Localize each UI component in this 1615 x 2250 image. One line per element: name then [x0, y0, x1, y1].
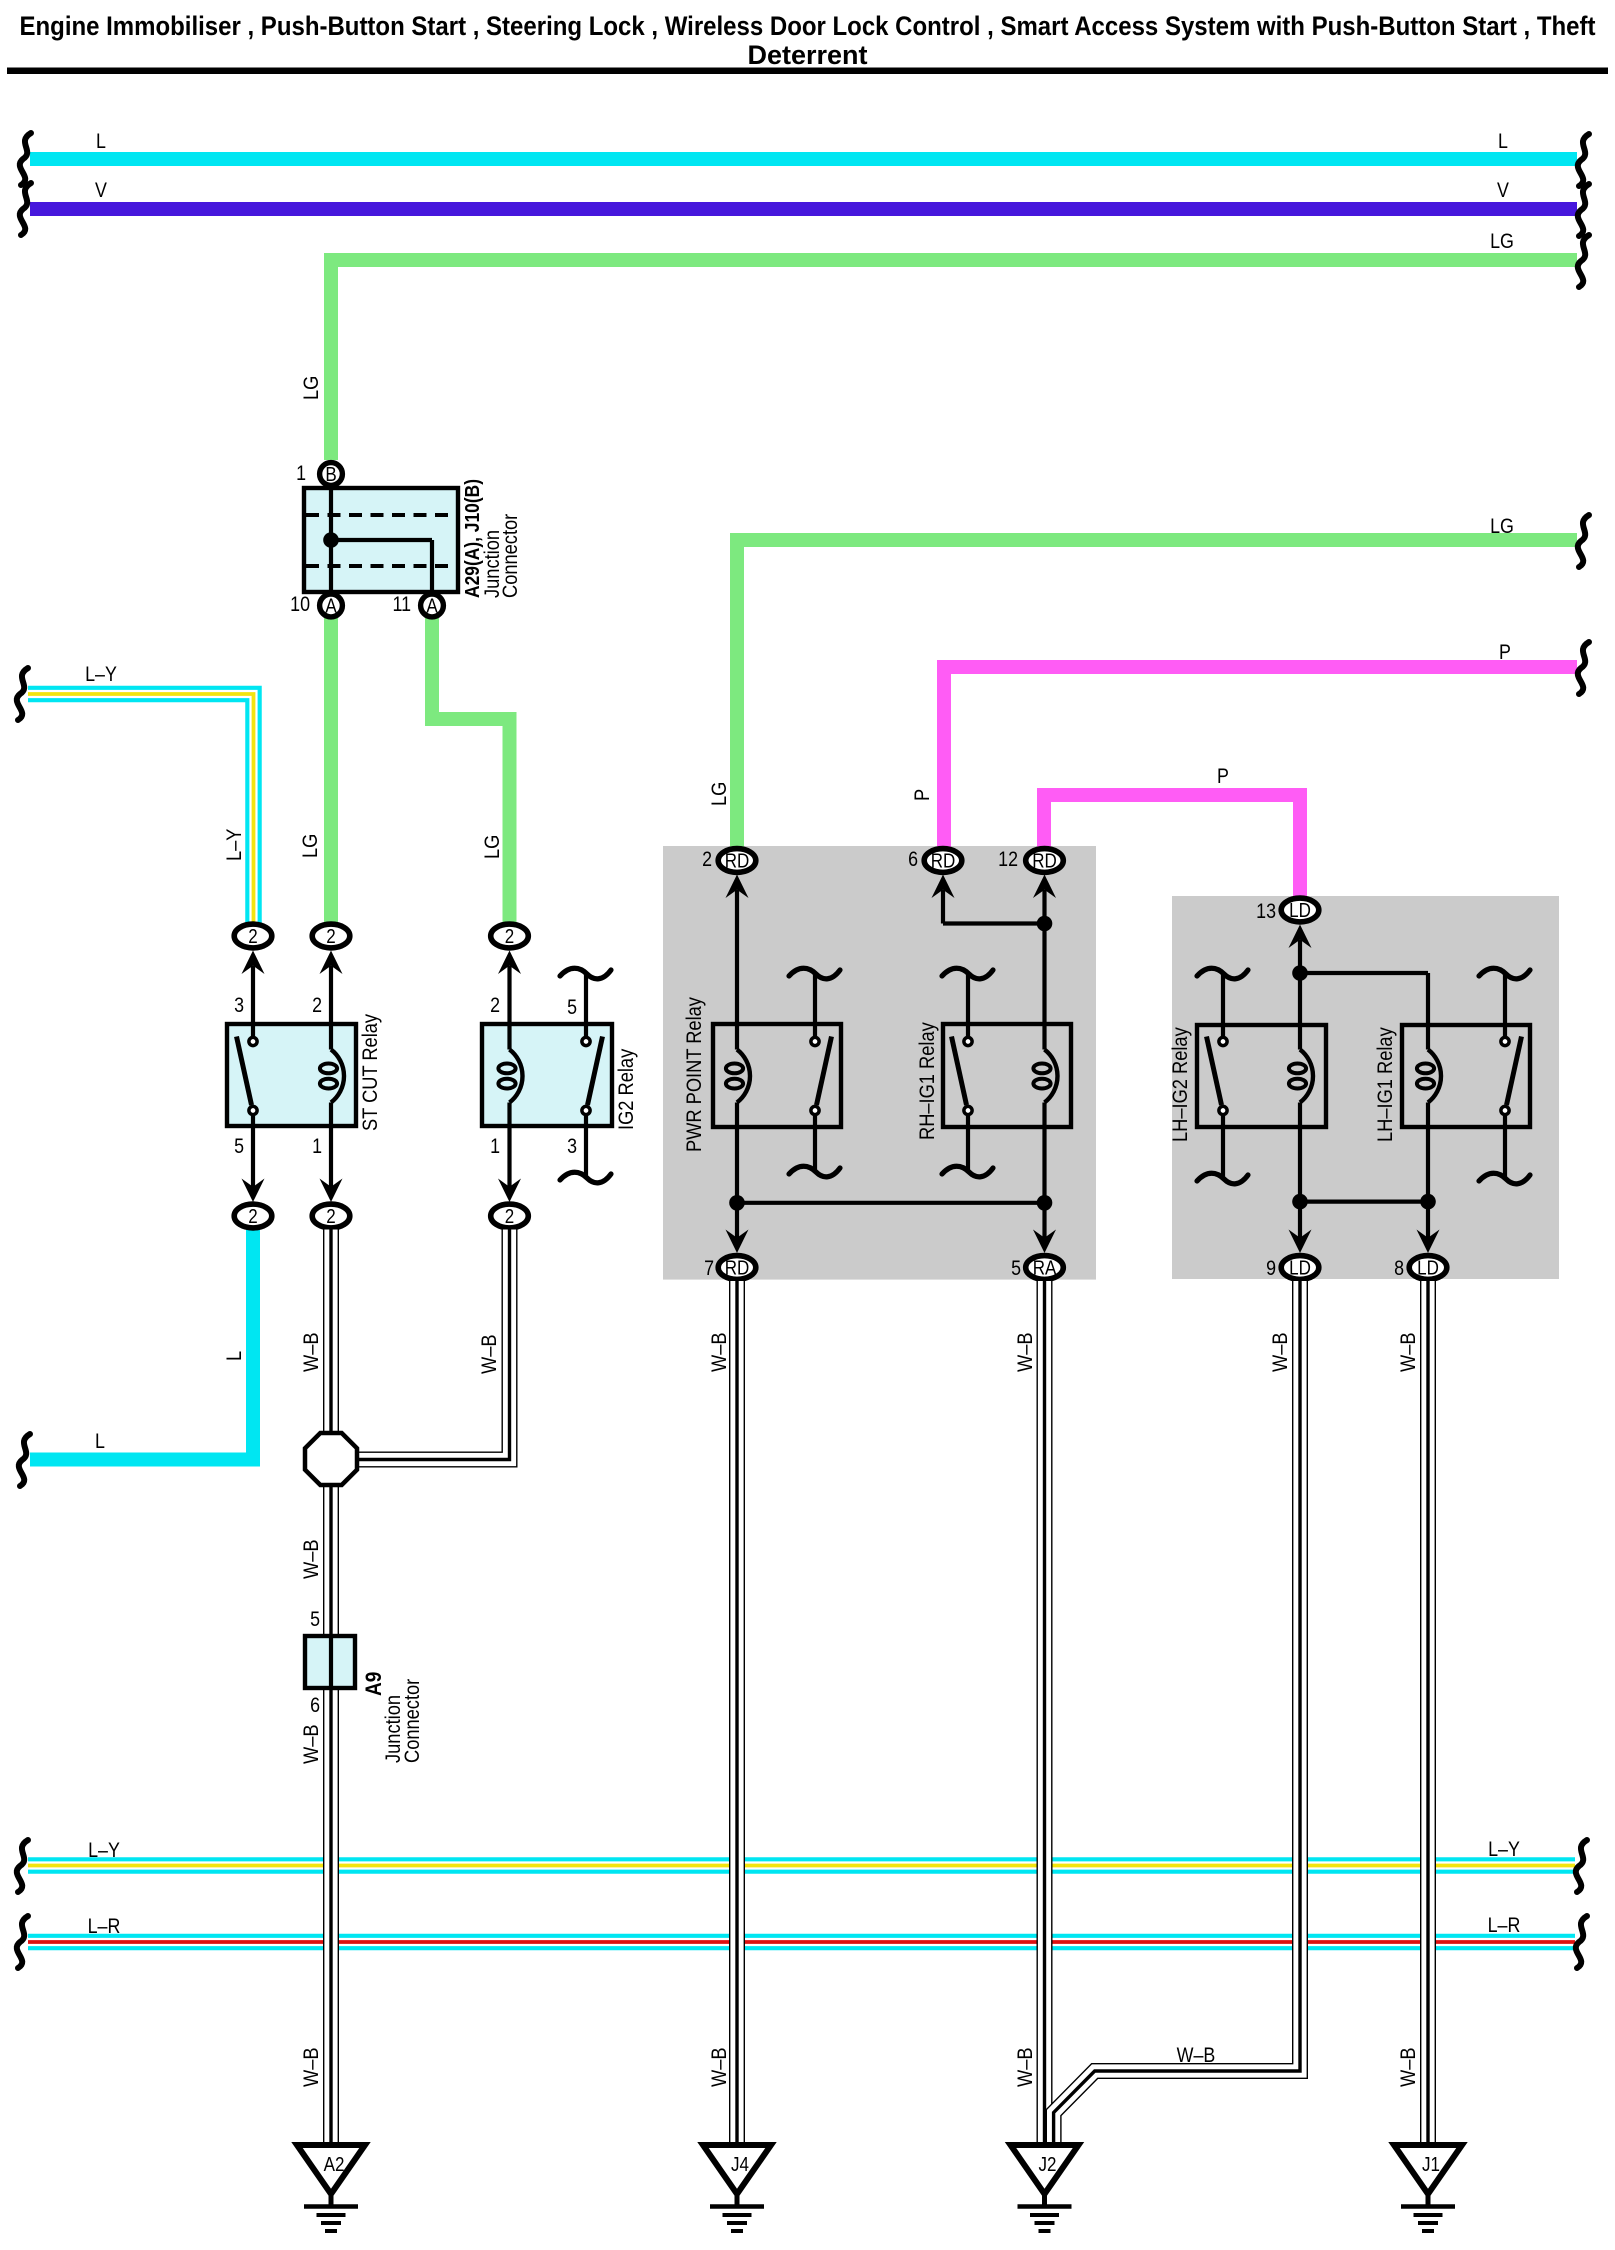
LH-IG2 relay coil	[1300, 1050, 1313, 1103]
splice octagon junction	[305, 1433, 357, 1485]
terminal oval 2 (L-Y into ST CUT)	[242, 951, 265, 975]
wire LG squiggle right end	[1578, 515, 1589, 567]
wire L-Y (blue-yellow) bottom horizontal	[28, 1857, 1575, 1874]
svg-text:J4: J4	[731, 2153, 749, 2176]
svg-text:Deterrent: Deterrent	[747, 40, 867, 70]
svg-text:A2: A2	[324, 2153, 345, 2176]
svg-text:V: V	[95, 179, 107, 203]
PWR POINT coil wire down to terminal 7	[735, 1103, 739, 1203]
relay block shaded area (LH-IG2 / LH-IG1 relays)	[1172, 896, 1559, 1279]
svg-text:RA: RA	[1033, 1256, 1057, 1279]
svg-text:RH–IG1 Relay: RH–IG1 Relay	[916, 1022, 940, 1140]
svg-text:1: 1	[296, 462, 306, 486]
svg-text:2: 2	[326, 1205, 335, 1228]
RH-IG1 switch lower wire with break	[966, 1115, 970, 1170]
svg-text:RD: RD	[725, 1256, 750, 1279]
wire from terminal 6 to node on terminal 12 wire	[941, 890, 945, 924]
wire W-B from terminal 9 LD jogging left to ground J2	[1054, 1281, 1300, 2145]
svg-text:W–B: W–B	[300, 1539, 324, 1579]
LH-IG1 coil wire down to terminal 8	[1426, 1103, 1430, 1202]
svg-text:3: 3	[234, 994, 244, 1018]
relay IG2 body	[482, 1024, 612, 1126]
svg-text:W–B: W–B	[708, 2047, 732, 2087]
ST CUT relay switch	[249, 1037, 257, 1045]
terminal oval 5 RA	[1026, 1256, 1064, 1280]
LH-IG2 switch upper wire with break	[1221, 974, 1225, 1037]
node dot terminal 6/12 junction	[1037, 916, 1053, 932]
svg-text:A: A	[426, 594, 438, 617]
svg-text:L: L	[1498, 130, 1508, 154]
ST CUT pin 1 arrow down	[320, 1179, 343, 1203]
svg-text:Engine Immobiliser , Push-Butt: Engine Immobiliser , Push-Button Start ,…	[20, 11, 1596, 41]
branch wire from node to LH-IG1 coil	[1300, 971, 1428, 975]
wire W-B from terminal 5 RA to ground J2	[1037, 1281, 1053, 2145]
IG2 relay switch	[582, 1037, 590, 1045]
wire V right squiggle	[1578, 184, 1589, 236]
svg-text:LH–IG1 Relay: LH–IG1 Relay	[1374, 1027, 1398, 1142]
relay PWR POINT body	[713, 1024, 841, 1127]
terminal oval 2 (LG into IG2)	[498, 951, 521, 975]
LH-IG2 coil wire down to terminal 9	[1298, 1103, 1302, 1202]
svg-text:8: 8	[1394, 1257, 1404, 1281]
ST CUT switch pin 3 wire	[251, 966, 255, 1037]
wire L left squiggle (lower)	[19, 1434, 30, 1486]
PWR POINT switch lower wire with break	[813, 1115, 817, 1170]
svg-text:12: 12	[998, 848, 1018, 872]
svg-text:5: 5	[567, 996, 577, 1020]
wire V (violet) top horizontal	[30, 202, 1577, 216]
svg-text:L–R: L–R	[88, 1915, 121, 1939]
svg-text:P: P	[1217, 765, 1229, 789]
pin 10 circle A of A29	[320, 594, 343, 617]
terminal oval 7 RD	[718, 1256, 756, 1280]
svg-text:P: P	[911, 789, 935, 801]
svg-text:J1: J1	[1422, 2153, 1440, 2176]
IG2 switch pin 5 wire with break	[584, 974, 588, 1037]
svg-text:LG: LG	[1490, 515, 1514, 539]
junction connector A29 dashed partition lower	[306, 564, 456, 568]
wire LG (green) top horizontal with corner down to junction connector	[331, 260, 1577, 460]
PWR POINT coil wire from terminal 2	[735, 890, 739, 1050]
wire LG vertical junction connector pin 10 to ST CUT relay coil	[324, 618, 338, 923]
svg-text:W–B: W–B	[1397, 1332, 1421, 1372]
svg-text:Connector: Connector	[401, 1678, 425, 1763]
svg-text:9: 9	[1266, 1257, 1276, 1281]
svg-text:IG2 Relay: IG2 Relay	[615, 1049, 639, 1130]
svg-text:A: A	[325, 594, 337, 617]
wire node to terminal 5 arrow	[1042, 1203, 1046, 1242]
svg-text:3: 3	[567, 1135, 577, 1159]
LH-IG1 relay switch	[1501, 1037, 1509, 1045]
LH-IG1 switch lower wire with break	[1503, 1115, 1507, 1177]
terminal oval 12 RD	[1033, 875, 1056, 899]
svg-text:LG: LG	[481, 835, 505, 859]
terminal oval 6 RD	[932, 875, 955, 899]
wire LG (green) horizontal to PWR POINT relay	[737, 540, 1577, 848]
wire W-B from ST CUT terminal down through octagon and A9 to ground A2	[323, 1230, 339, 2146]
node dot above terminal 9	[1292, 1194, 1308, 1210]
ground J1	[1394, 2145, 1462, 2194]
terminal oval 8 LD	[1409, 1256, 1447, 1280]
svg-text:Connector: Connector	[499, 513, 523, 598]
svg-text:7: 7	[704, 1257, 714, 1281]
svg-text:L–Y: L–Y	[85, 663, 117, 687]
wire node to terminal 9 arrow	[1298, 1202, 1302, 1242]
wire from terminal 12 into RH-IG1 coil	[1042, 890, 1046, 1050]
LH-IG2 switch lower wire with break	[1221, 1115, 1225, 1177]
ST CUT pin 5 arrow down	[242, 1179, 265, 1203]
svg-text:PWR POINT Relay: PWR POINT Relay	[683, 997, 707, 1152]
svg-text:LG: LG	[299, 834, 323, 858]
PWR POINT switch upper wire with break	[813, 974, 817, 1037]
relay ST CUT body	[227, 1024, 356, 1126]
relay LH-IG2 body	[1197, 1025, 1326, 1127]
svg-text:A9: A9	[362, 1672, 387, 1696]
svg-text:LG: LG	[708, 782, 732, 806]
wire W-B from terminal 7 RD to ground J4	[729, 1281, 745, 2145]
svg-text:1: 1	[490, 1135, 500, 1159]
svg-text:W–B: W–B	[300, 1332, 324, 1372]
svg-text:V: V	[1497, 179, 1509, 203]
wire P (pink) jog from terminal 12 to terminal 13	[1044, 795, 1300, 897]
svg-text:LH–IG2 Relay: LH–IG2 Relay	[1169, 1027, 1193, 1142]
svg-text:LD: LD	[1289, 1256, 1311, 1279]
bus line between terminal 7 and terminal 5 nodes	[737, 1201, 1045, 1205]
terminal 7 arrow down	[726, 1230, 749, 1254]
wire L-Y bottom left squiggle	[17, 1840, 28, 1892]
wire L-Y bottom right squiggle	[1576, 1840, 1587, 1892]
terminal oval 2 (LG into ST CUT)	[320, 951, 343, 975]
svg-text:LG: LG	[1490, 230, 1514, 254]
svg-text:2: 2	[326, 925, 335, 948]
ground J2	[1011, 2145, 1079, 2194]
svg-text:L–Y: L–Y	[88, 1839, 120, 1863]
terminal 5 arrow down	[1033, 1230, 1056, 1254]
svg-text:B: B	[325, 463, 336, 486]
svg-text:W–B: W–B	[1177, 2044, 1216, 2068]
ST CUT relay coil	[331, 1050, 344, 1103]
terminal oval 9 LD	[1281, 1256, 1319, 1280]
svg-text:W–B: W–B	[1397, 2047, 1421, 2087]
svg-text:5: 5	[234, 1135, 244, 1159]
RH-IG1 relay coil	[1045, 1050, 1058, 1103]
terminal 8 arrow down	[1417, 1230, 1440, 1254]
svg-text:W–B: W–B	[1014, 1332, 1038, 1372]
svg-text:L–Y: L–Y	[1488, 1838, 1520, 1862]
wire P squiggle right end	[1578, 642, 1589, 694]
PWR POINT relay switch	[811, 1037, 819, 1045]
wire L right squiggle	[1578, 134, 1589, 186]
svg-text:RD: RD	[931, 849, 956, 872]
title rule	[7, 68, 1608, 75]
terminal oval 13 LD	[1289, 925, 1312, 949]
svg-text:10: 10	[290, 593, 310, 617]
wire inside A29 branch to pin 11	[331, 538, 432, 542]
pin 11 circle A of A29	[421, 594, 444, 617]
ground A2	[297, 2145, 365, 2194]
RH-IG1 coil wire down to terminal 5	[1042, 1103, 1046, 1203]
junction connector A29(A), J10(B) body	[304, 488, 458, 592]
svg-text:L: L	[96, 130, 106, 154]
terminal 9 arrow down	[1289, 1230, 1312, 1254]
junction A29 internal node dot	[323, 532, 339, 548]
node dot under PWR POINT coil	[729, 1195, 745, 1211]
wire L left squiggle	[20, 133, 31, 185]
IG2 switch pin 3 wire with break	[584, 1115, 588, 1176]
IG2 pin 1 arrow down	[498, 1179, 521, 1203]
terminal oval 2 RD	[726, 875, 749, 899]
svg-text:L–Y: L–Y	[223, 828, 247, 861]
terminal oval 2 (ST CUT to L wire)	[234, 1204, 272, 1228]
ground J4	[703, 2145, 771, 2194]
relay RH-IG1 body	[943, 1024, 1071, 1127]
wire L-R bottom left squiggle	[17, 1916, 28, 1968]
terminal oval 2 (IG2 to W-B)	[491, 1204, 529, 1228]
IG2 coil pin 1 wire	[507, 1103, 511, 1197]
PWR POINT relay coil	[737, 1050, 750, 1103]
junction connector A9 body	[305, 1636, 355, 1688]
IG2 relay coil	[510, 1050, 523, 1103]
svg-text:P: P	[1499, 641, 1511, 665]
svg-text:ST CUT Relay: ST CUT Relay	[359, 1014, 383, 1131]
relay LH-IG1 body	[1402, 1025, 1530, 1127]
RH-IG1 relay switch	[964, 1037, 972, 1045]
wire L-Y left squiggle	[17, 668, 28, 720]
wire LG jog junction connector pin 11 to IG2 relay coil	[432, 618, 510, 923]
ST CUT switch pin 5 wire	[251, 1115, 255, 1196]
node dot above terminal 8	[1420, 1194, 1436, 1210]
wire through A9	[329, 1636, 333, 1688]
LH-IG1 relay coil	[1428, 1050, 1441, 1103]
svg-text:2: 2	[505, 925, 514, 948]
IG2 coil pin 2 wire	[507, 966, 511, 1050]
svg-text:2: 2	[490, 994, 500, 1018]
wire V left squiggle	[20, 183, 31, 235]
svg-text:W–B: W–B	[300, 1724, 324, 1764]
svg-text:W–B: W–B	[708, 1332, 732, 1372]
svg-text:W–B: W–B	[478, 1334, 502, 1374]
svg-text:6: 6	[908, 848, 918, 872]
svg-text:W–B: W–B	[300, 2047, 324, 2087]
svg-text:2: 2	[248, 1205, 257, 1228]
relay block shaded area (PWR POINT / RH-IG1 relays)	[663, 846, 1096, 1280]
junction connector A29 dashed partition upper	[306, 513, 456, 517]
LH-IG1 switch upper wire with break	[1503, 974, 1507, 1037]
wire P (pink) horizontal to RH-IG1 relay	[944, 667, 1577, 848]
wire L-R (blue-red) bottom horizontal	[28, 1934, 1575, 1951]
wire L (cyan) from ST CUT relay terminal down and left	[30, 1229, 253, 1460]
wire W-B from IG2 terminal down and left to octagon	[357, 1230, 510, 1460]
wire inside A29 from pin 1 to pin 10	[329, 479, 333, 596]
RH-IG1 switch upper wire with break	[966, 974, 970, 1037]
svg-text:2: 2	[312, 994, 322, 1018]
svg-text:L–R: L–R	[1488, 1914, 1521, 1938]
svg-text:13: 13	[1256, 900, 1276, 924]
svg-text:W–B: W–B	[1269, 1332, 1293, 1372]
wire from terminal 13 to node	[1298, 940, 1302, 1050]
svg-text:1: 1	[312, 1135, 322, 1159]
terminal oval 2 (ST CUT to W-B)	[312, 1204, 350, 1228]
svg-text:5: 5	[1011, 1257, 1021, 1281]
node dot under terminal 13	[1292, 965, 1308, 981]
node dot above terminal 5	[1037, 1195, 1053, 1211]
svg-text:L: L	[223, 1351, 247, 1361]
svg-text:W–B: W–B	[1014, 2047, 1038, 2087]
svg-text:J2: J2	[1039, 2153, 1057, 2176]
ST CUT coil pin 2 wire	[329, 966, 333, 1050]
wire LG right squiggle	[1578, 235, 1589, 287]
wire L-R bottom right squiggle	[1576, 1916, 1587, 1968]
wire L-Y (blue-yellow) top left with corner down to ST CUT relay	[28, 694, 254, 923]
bus line between terminal 9 and 8 nodes	[1300, 1199, 1428, 1203]
svg-text:RD: RD	[1032, 849, 1057, 872]
svg-text:L: L	[95, 1430, 105, 1454]
wire L (cyan) top horizontal	[30, 152, 1577, 166]
svg-text:6: 6	[310, 1694, 320, 1718]
pin 1 circle B of A29	[320, 463, 343, 486]
svg-text:LD: LD	[1417, 1256, 1439, 1279]
svg-text:2: 2	[505, 1205, 514, 1228]
wire W-B from terminal 8 LD to ground J1	[1420, 1281, 1436, 2145]
svg-text:2: 2	[702, 848, 712, 872]
LH-IG2 relay switch	[1219, 1037, 1227, 1045]
wire node to terminal 7 arrow	[735, 1203, 739, 1242]
svg-text:11: 11	[392, 593, 411, 617]
svg-text:LD: LD	[1289, 899, 1311, 922]
wire node to terminal 8 arrow	[1426, 1202, 1430, 1242]
svg-text:RD: RD	[725, 849, 750, 872]
ST CUT coil pin 1 wire	[329, 1103, 333, 1197]
svg-text:5: 5	[310, 1608, 320, 1632]
svg-text:LG: LG	[300, 376, 324, 400]
svg-text:2: 2	[248, 925, 257, 948]
